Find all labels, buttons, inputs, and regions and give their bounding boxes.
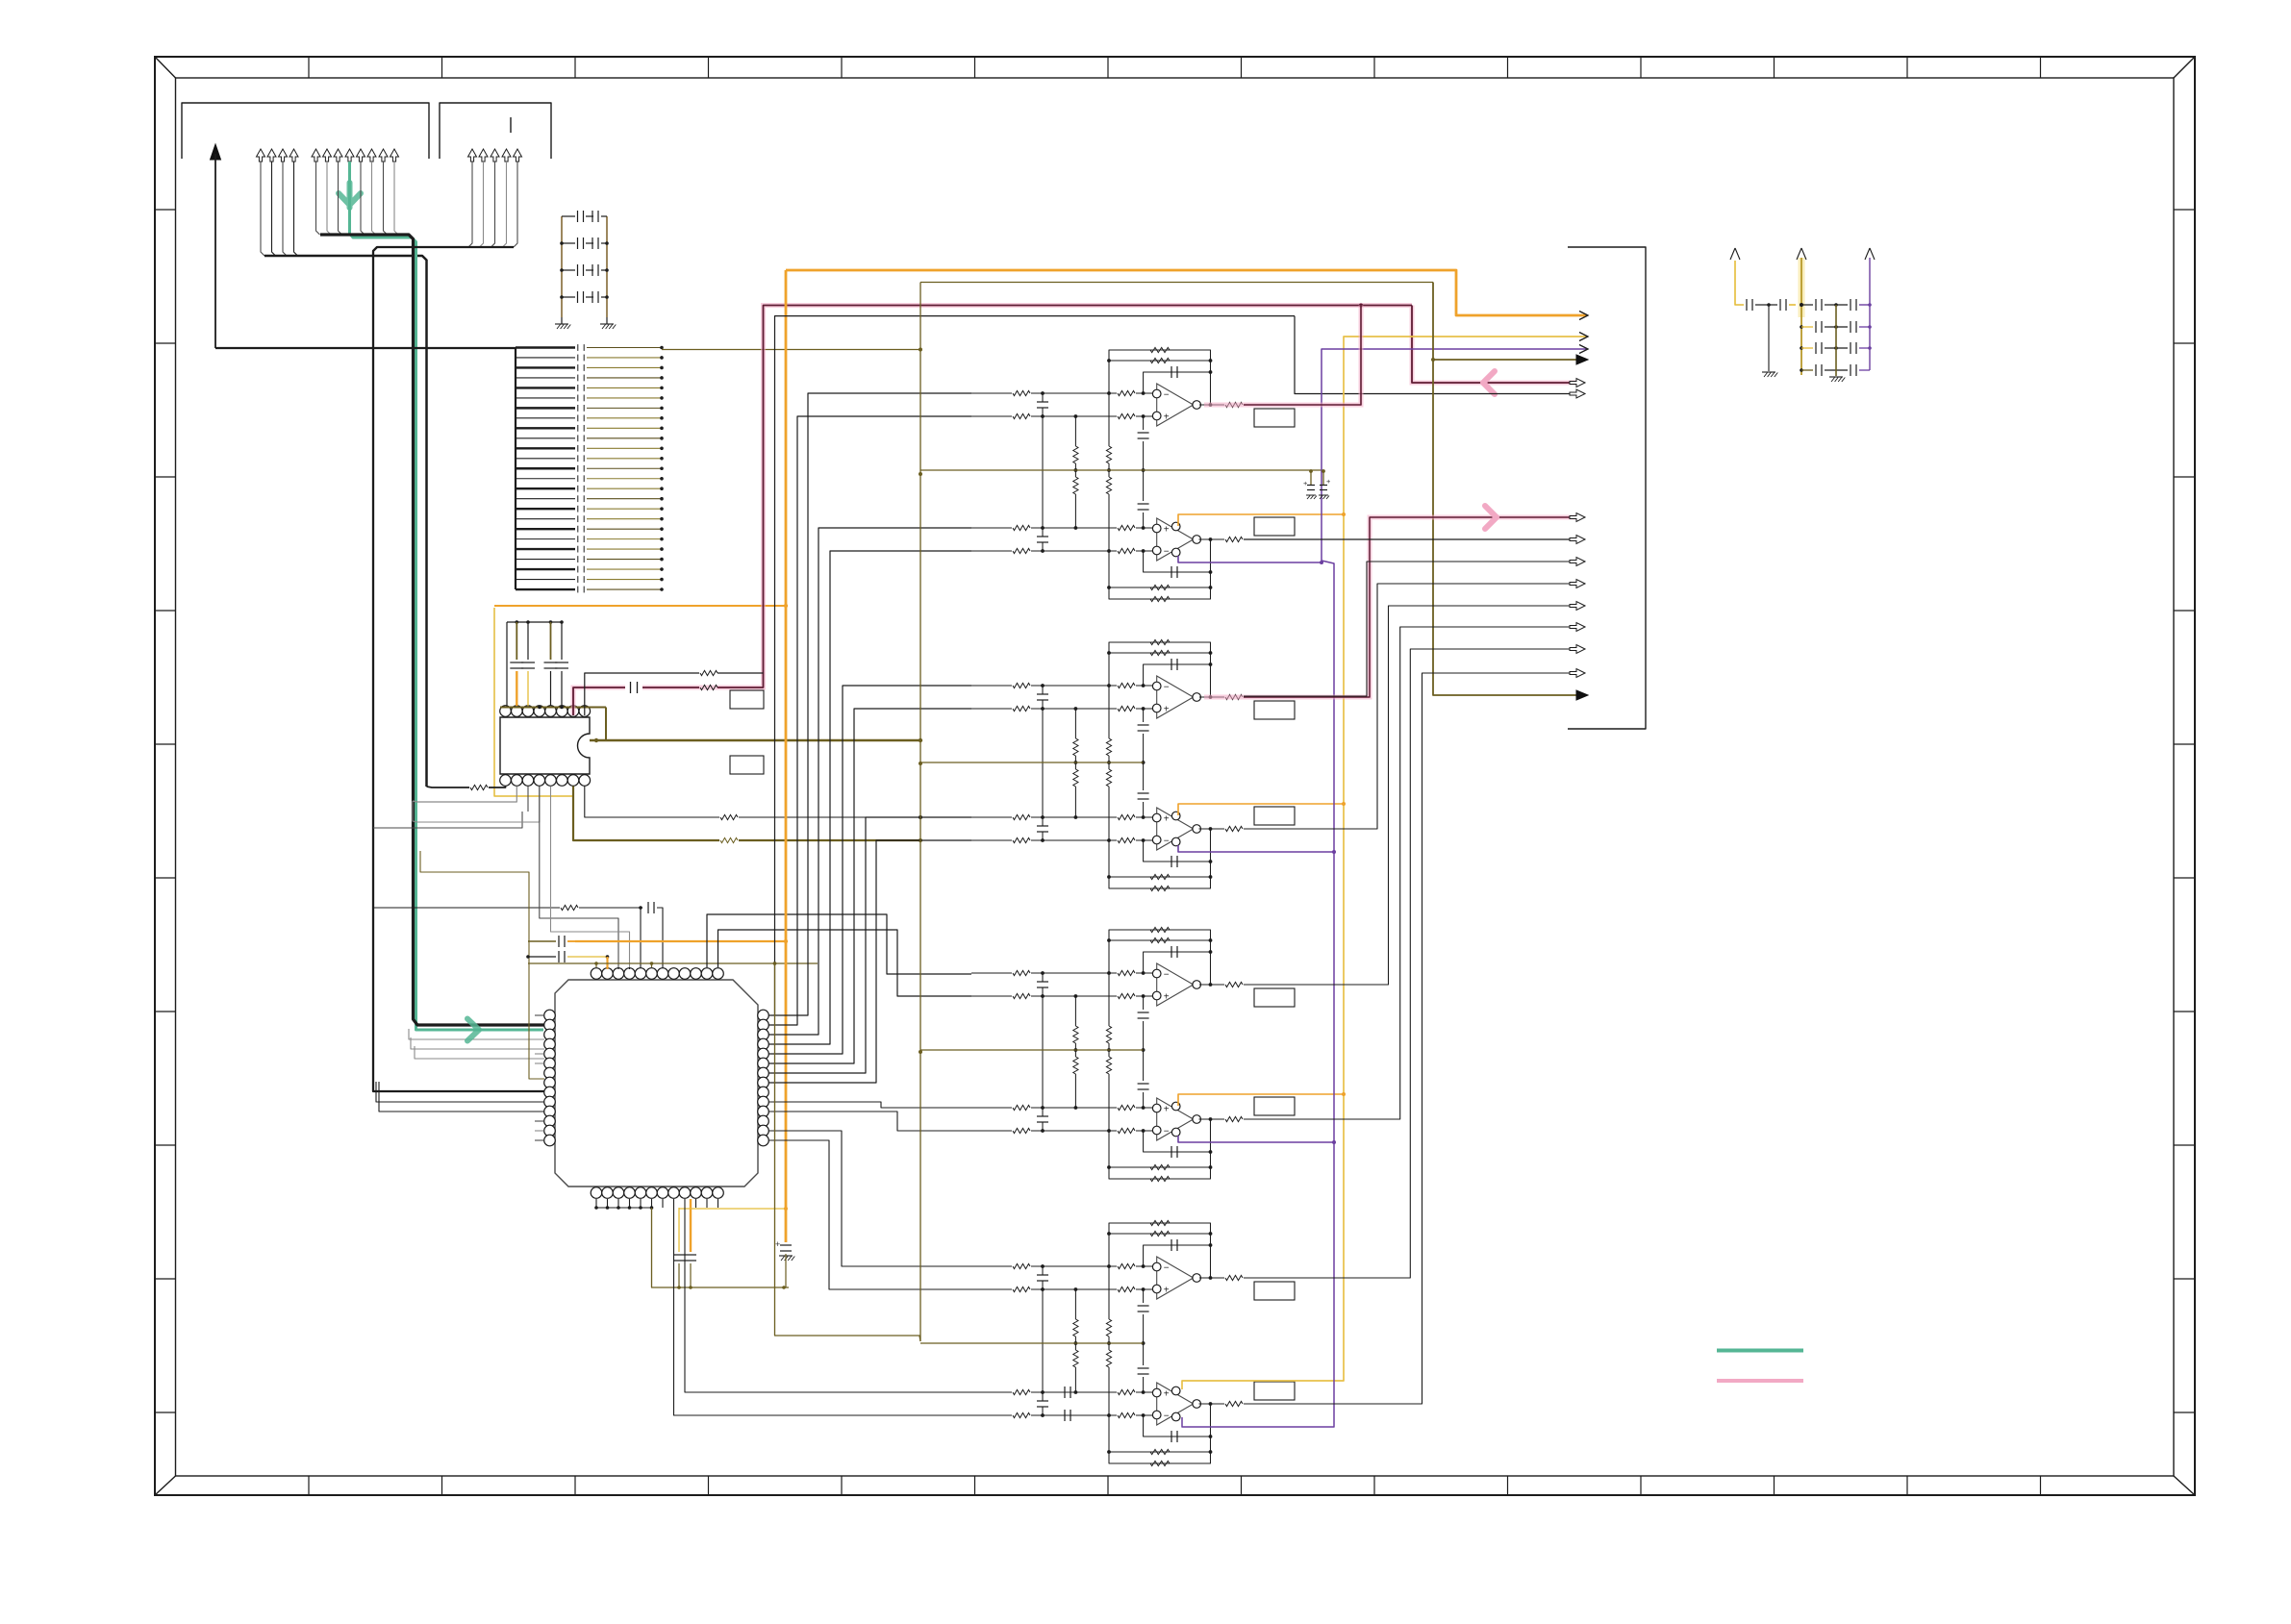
wire bundle B	[316, 162, 320, 235]
cluster1 out2	[1199, 538, 1225, 540]
resistor on maroon net	[700, 685, 718, 689]
cap array row 11	[516, 447, 575, 449]
green highlighted net arrow chevron	[339, 183, 361, 208]
top-right decoupling network	[1730, 248, 1740, 260]
cluster2 out2	[1199, 828, 1225, 830]
box out4A	[1254, 1282, 1295, 1300]
cluster3 out1	[1199, 984, 1224, 986]
U3 top pin 5	[635, 968, 646, 980]
U2 pin 15 (bottom)	[512, 775, 523, 787]
olive rail vertical x=550	[420, 851, 544, 1079]
box out4B	[1254, 1382, 1295, 1400]
U3 left pin 9	[544, 1087, 556, 1098]
cluster4 feedback rail bottom	[1109, 1404, 1211, 1463]
cluster1 in1a	[971, 392, 1012, 394]
connector pin arrow C5	[514, 149, 522, 162]
U3 right pin 9	[758, 1087, 769, 1098]
wire power to cap array	[215, 347, 516, 349]
cluster2 in2a	[971, 816, 1012, 818]
olive stem	[1835, 305, 1837, 376]
ground ladder left	[555, 323, 568, 325]
U3 left pin 11	[544, 1106, 556, 1117]
cap array left rail	[515, 348, 516, 590]
cluster3 out2	[1199, 1118, 1225, 1120]
U2 pin 1 (top)	[500, 706, 512, 717]
U3 right pin 11	[758, 1106, 769, 1117]
cap array row 10	[516, 437, 575, 439]
cluster4 out1	[1199, 1277, 1224, 1279]
U2 pin 16 (bottom)	[500, 775, 512, 787]
olive vertical x=805.5 lower	[775, 963, 921, 1341]
bundle B vertical	[320, 235, 544, 1025]
U3 bottom pin 4	[624, 1187, 636, 1199]
op-amp U2A	[1157, 676, 1194, 718]
cap array row 1	[516, 346, 575, 348]
U3 bottom pin 6	[646, 1187, 658, 1199]
U2 pin 10 (bottom)	[567, 775, 579, 787]
pink net cluster B	[1204, 517, 1577, 697]
U3 left pin 12	[544, 1115, 556, 1127]
electrolytic cap on orange bus	[780, 1244, 792, 1246]
cluster3 olive mid	[920, 1049, 1144, 1051]
orange branch cluster2	[1178, 804, 1344, 815]
svg-text:+: +	[1164, 992, 1170, 1003]
cluster1 olive mid	[920, 469, 1323, 471]
U3 bottom pin 11	[701, 1187, 713, 1199]
purple net	[1182, 349, 1587, 1427]
cluster4 input cap2	[1037, 1400, 1048, 1402]
svg-text:−: −	[1164, 1412, 1170, 1422]
branch to U2 net	[373, 812, 522, 828]
wire bundle C	[468, 162, 472, 247]
U3 top pin stubs	[607, 967, 609, 969]
cluster2 feedback rail bottom	[1109, 829, 1211, 888]
U3 right pin 12	[758, 1115, 769, 1127]
cluster3 feedback rail top	[1109, 930, 1211, 985]
cluster2 feedback rail top	[1109, 642, 1211, 697]
U3 bottom pin 9	[679, 1187, 691, 1199]
connector pin arrow C2	[479, 149, 488, 162]
long net to amp D2b	[674, 1208, 972, 1415]
cluster3 input cap1	[1037, 981, 1048, 983]
U3 top pin 8	[668, 968, 680, 980]
cluster4 in2b	[971, 1414, 1012, 1416]
connector pin arrow B7	[379, 149, 388, 162]
cluster4 divider rails	[1108, 1266, 1110, 1319]
svg-text:+: +	[1164, 1105, 1170, 1115]
U2 pin 2 (top)	[512, 706, 523, 717]
wire cap to U2 pin5	[550, 671, 552, 706]
net A2 out to connector	[1244, 538, 1577, 540]
bus net to row y=652	[1244, 627, 1577, 1119]
cap array row 23	[516, 568, 575, 570]
cluster3 fb cap wire	[1144, 952, 1211, 973]
thin yellow branch from orange bus	[679, 1208, 786, 1210]
bundle C vertical	[373, 247, 544, 1091]
cap array row 2	[516, 357, 575, 359]
orange net A (top)	[786, 270, 1587, 315]
U3 top pin 9	[679, 968, 691, 980]
U3 left pin 13	[544, 1125, 556, 1137]
net U2 pin8b	[585, 787, 719, 818]
U3 left pin 5	[544, 1048, 556, 1060]
svg-text:+: +	[1303, 479, 1308, 487]
net U3 pin9 to amp C2a	[768, 1102, 971, 1108]
black net from U2 pin8	[585, 673, 699, 715]
cluster3 input cap2	[1037, 1115, 1048, 1117]
pin mark J2	[510, 117, 512, 133]
U3 right pin 8	[758, 1077, 769, 1088]
net U3 right pin8 to amp	[768, 840, 971, 1083]
connector pin arrow B3	[334, 149, 342, 162]
U2 pin 7 (top)	[567, 706, 579, 717]
yellow wire cap to U2 pin2	[516, 671, 517, 706]
U3 right pin 1	[758, 1010, 769, 1021]
U3 top pin 11	[701, 968, 713, 980]
U3 top pin 4	[624, 968, 636, 980]
cluster2 out1	[1199, 696, 1224, 698]
resistor on net to U3	[561, 905, 578, 910]
cap array row 21	[516, 548, 575, 550]
svg-text:+: +	[1164, 412, 1170, 423]
cluster4 in1a	[971, 1265, 1012, 1267]
cap array row 22	[516, 559, 575, 561]
connector pin arrow B2	[323, 149, 332, 162]
U3 right pin 6	[758, 1058, 769, 1069]
purple power arrow	[1865, 248, 1875, 260]
connector arrow row y=584	[1570, 558, 1585, 566]
orange branch above U3	[575, 940, 786, 942]
border tick marks	[308, 57, 310, 78]
op-amp U1B	[1157, 518, 1194, 561]
U2 pin 14 (bottom)	[522, 775, 534, 787]
gray wire to U2 pin2b	[413, 787, 516, 803]
U3 left pin 14	[544, 1135, 556, 1146]
connector arrow row y=652	[1570, 623, 1585, 632]
cluster4 feedback rail top	[1109, 1223, 1211, 1278]
cluster3 in2a	[971, 1107, 1012, 1109]
connector arrow row y=607	[1570, 580, 1585, 588]
purple branch cluster1	[1178, 556, 1322, 562]
box FB2	[730, 756, 764, 774]
orange branch cluster1	[1178, 514, 1344, 526]
cap array row 19	[516, 528, 575, 530]
connector pin arrow C4	[502, 149, 511, 162]
svg-text:−: −	[1164, 970, 1170, 981]
olive rail above U2 pins	[500, 707, 606, 709]
connector pin arrow B1	[312, 149, 320, 162]
cap array row 15	[516, 487, 575, 489]
U3 left pin wires	[535, 1014, 544, 1016]
connector pin arrow B4	[345, 149, 354, 162]
olive net U2 pin7b	[573, 787, 719, 841]
op-amp U4B	[1157, 1383, 1194, 1425]
power arrow (filled)	[211, 144, 221, 160]
cluster3 in2b	[971, 1130, 1012, 1132]
U2 pin 3 (top)	[522, 706, 534, 717]
cluster1 feedback rail bottom	[1109, 539, 1211, 599]
connector pin arrow A3	[279, 149, 288, 162]
yellow caps below U3	[678, 1208, 680, 1252]
cluster4 out2	[1199, 1403, 1225, 1405]
net U3 right pin6 to amp	[768, 709, 971, 1063]
connector pin arrow C1	[468, 149, 477, 162]
maroon net into U2 pin7	[573, 306, 1577, 716]
cap array row 4	[516, 377, 575, 379]
ladder right rail	[606, 216, 608, 317]
U3 left pin 4	[544, 1038, 556, 1050]
U2 pin 13 (bottom)	[534, 775, 545, 787]
U3 right pin 10	[758, 1096, 769, 1108]
cap array row 13	[516, 467, 575, 469]
cap array row 20	[516, 538, 575, 540]
cap array row 17	[516, 508, 575, 510]
box FB1	[730, 690, 764, 709]
ladder cap row 1 lead	[562, 215, 575, 217]
U3 right pin 14	[758, 1135, 769, 1146]
U3 right pin 13	[758, 1125, 769, 1137]
U3 left pin 6	[544, 1058, 556, 1069]
cap array row 25	[516, 588, 575, 590]
IC U3 (QFP) body	[555, 980, 758, 1187]
op-amp U3B	[1157, 1098, 1194, 1140]
U3 right pin 2	[758, 1019, 769, 1031]
net U3 right pin3 to amp	[768, 528, 971, 1035]
svg-text:−: −	[1164, 683, 1170, 693]
filled arrow olive row	[1576, 355, 1588, 364]
cap array row 12	[516, 458, 575, 460]
net U3 pin14 to amp D1b	[768, 1140, 971, 1289]
bundle A vertical	[264, 256, 427, 787]
net U3 right pin1 to amp	[768, 393, 971, 1015]
olive net from cap array to opamp rail	[662, 349, 920, 351]
gnd stem left	[1768, 305, 1770, 371]
cluster3 in1a	[971, 972, 1012, 974]
U3 right pin 5	[758, 1048, 769, 1060]
cap array row 5	[516, 387, 575, 388]
orange bus vertical	[785, 270, 788, 1242]
IC U2 body	[500, 717, 590, 774]
cluster2 1084 column	[1042, 709, 1044, 817]
ladder cap row 2 lead	[562, 242, 575, 244]
connector arrow maroon net	[1570, 379, 1585, 387]
svg-text:−: −	[1164, 547, 1170, 558]
connector arrow purple	[1579, 345, 1588, 354]
olive rail above U3	[528, 962, 818, 964]
bus net to row y=700	[1244, 673, 1577, 1404]
cluster2 fb cap wire	[1144, 664, 1211, 686]
op-amp U2B	[1157, 808, 1194, 850]
U3 bottom pin 1	[591, 1187, 602, 1199]
U3 top pin 6	[646, 968, 658, 980]
U2 pin 5 (top)	[545, 706, 557, 717]
cluster3 feedback rail bottom	[1109, 1119, 1211, 1179]
U3 bottom pin 8	[668, 1187, 680, 1199]
ground decoupling 2	[1829, 376, 1843, 378]
yellow net vertical	[1182, 337, 1587, 1389]
U3 right pin 7	[758, 1067, 769, 1079]
cluster4 in1b	[971, 1288, 1012, 1290]
box out2A	[1254, 701, 1295, 719]
cap rail above U2	[507, 621, 562, 623]
cluster4 1084 column	[1042, 1289, 1044, 1392]
connector arrow pink	[1570, 513, 1585, 522]
net U3 right pin4 to amp	[768, 551, 971, 1044]
orange branch cluster3	[1178, 1094, 1344, 1106]
bus net to row y=675	[1244, 649, 1577, 1278]
connector arrow yellow	[1579, 333, 1588, 341]
purple branch cluster2	[1178, 845, 1334, 852]
connector arrow row y=675	[1570, 645, 1585, 654]
connector pin arrow A1	[257, 149, 265, 162]
gray wire to U3 pin	[411, 1037, 544, 1049]
U3 top pin 2	[602, 968, 614, 980]
svg-text:+: +	[1164, 814, 1170, 825]
net U3 pin12 to amp C	[718, 930, 972, 996]
gray wire to U3 pin	[415, 1046, 544, 1059]
net U3 pin11 to amp C	[707, 914, 971, 974]
cluster2 in1a	[971, 685, 1012, 687]
olive net arrows	[1433, 283, 1579, 696]
cluster2 divider rails	[1108, 686, 1110, 738]
cluster1 feedback rail top	[1109, 350, 1211, 405]
cap array row 9	[516, 427, 575, 429]
U3 top pin 7	[657, 968, 668, 980]
ladder cap row 3 lead	[562, 269, 575, 271]
net U3 pin13 to amp D1a	[768, 1131, 971, 1266]
cluster2 input cap1	[1037, 693, 1048, 695]
svg-text:+: +	[1164, 1389, 1170, 1400]
U3 left pin 1	[544, 1010, 556, 1021]
svg-text:+: +	[1164, 1286, 1170, 1296]
svg-text:−: −	[1164, 837, 1170, 847]
ground decoupling 1	[1762, 371, 1775, 373]
connector arrow row y=700	[1570, 669, 1585, 678]
cluster4 in2a	[971, 1391, 1012, 1393]
ladder left rail	[561, 216, 563, 317]
connector pin arrow B8	[390, 149, 399, 162]
U3 bottom pin stubs and nets	[595, 1199, 597, 1208]
bus net to row y=607	[1244, 584, 1577, 829]
gray wire to U2 pin4b	[413, 787, 540, 823]
cluster4 fb cap wire	[1144, 1245, 1211, 1266]
op-amp U1A	[1157, 384, 1194, 426]
U3 bottom pin 5	[635, 1187, 646, 1199]
cap array row 8	[516, 417, 575, 419]
cluster2 in1b	[971, 708, 1012, 710]
cluster1 in2b	[971, 550, 1012, 552]
cap array row 24	[516, 579, 575, 581]
cluster2 input cap2	[1037, 825, 1048, 827]
maroon out cluster A op1	[1204, 306, 1361, 406]
cap array row 7	[516, 407, 575, 409]
rows 2-4	[1800, 325, 1803, 329]
U2 pin1 riser	[506, 622, 508, 706]
cluster1 fb cap wire	[1144, 372, 1211, 393]
bus net to row y=630	[1244, 606, 1577, 985]
electrolytic caps on colored verticals	[1310, 471, 1312, 485]
wire to U3 left pin 11	[379, 1082, 544, 1112]
connector arrow orange	[1579, 312, 1588, 320]
box out1B	[1254, 517, 1295, 536]
connector arrow row8	[1570, 536, 1585, 544]
U2 pin 4 (top)	[534, 706, 545, 717]
bus net to row y=584	[1244, 562, 1577, 696]
cap array row 3	[516, 366, 575, 368]
connector arrow row6	[1570, 389, 1585, 398]
wire to U3 left pin 10	[376, 1082, 544, 1102]
cluster1 divider rails	[1108, 393, 1110, 446]
svg-text:−: −	[1164, 1263, 1170, 1274]
cluster1 in1b	[971, 415, 1012, 417]
U2 pin 8 (top)	[579, 706, 591, 717]
U3 top pin 3	[613, 968, 624, 980]
U3 left pin 3	[544, 1029, 556, 1040]
box out3A	[1254, 988, 1295, 1007]
cluster1 input cap1	[1037, 401, 1048, 403]
wire cap to U2 pin6	[561, 671, 563, 706]
U3 bottom pin 10	[691, 1187, 702, 1199]
long net to amp D2a	[685, 1208, 971, 1392]
connector pin arrow C3	[491, 149, 499, 162]
page border frame	[155, 57, 2195, 1495]
branch resistor net to U3	[373, 907, 560, 909]
yellow net loop around U2	[494, 608, 574, 796]
connector pin arrow A2	[267, 149, 276, 162]
connector J1 outline bracket	[182, 103, 429, 159]
U3 right pin 4	[758, 1038, 769, 1050]
cap array row 16	[516, 498, 575, 500]
U3 left pin 2	[544, 1019, 556, 1031]
box out3B	[1254, 1097, 1295, 1115]
op-amp U4A	[1157, 1257, 1194, 1299]
cluster3 divider rails	[1108, 973, 1110, 1026]
purple branch cluster3	[1178, 1136, 1334, 1142]
U3 top pin 10	[691, 968, 702, 980]
svg-text:+: +	[775, 1239, 780, 1249]
black bus line row 410	[775, 316, 1296, 1015]
cap lead x=572.5	[550, 622, 552, 660]
cap array row 18	[516, 518, 575, 520]
connector pin arrow B6	[367, 149, 376, 162]
cap lead x=537.3	[516, 622, 517, 660]
U2 pin 6 (top)	[557, 706, 568, 717]
box out2B	[1254, 807, 1295, 825]
U3 top pin 12	[713, 968, 724, 980]
cluster2 olive mid	[920, 762, 1144, 763]
svg-text:+: +	[1164, 525, 1170, 536]
wire bundle A	[261, 162, 264, 256]
svg-text:+: +	[1326, 477, 1331, 486]
cluster3 1084 column	[1042, 996, 1044, 1108]
cap array row 14	[516, 478, 575, 480]
U2 pin 9 (bottom)	[579, 775, 591, 787]
cluster1 in2a	[971, 527, 1012, 529]
svg-text:−: −	[1164, 390, 1170, 401]
net U3 right pin2 to amp	[768, 416, 971, 1025]
yellow power vertical with glow	[1799, 258, 1805, 317]
svg-text:+: +	[1164, 705, 1170, 715]
caps above U3	[528, 940, 556, 942]
connector arrow row y=630	[1570, 602, 1585, 611]
U2 output olive thick	[590, 739, 920, 742]
cluster4 olive mid	[920, 1342, 1144, 1344]
legend pink line	[1717, 1379, 1803, 1383]
ground ladder right	[600, 323, 614, 325]
yellow to power arrow 1	[1735, 261, 1744, 305]
ladder cap row 4 lead	[562, 296, 575, 298]
U3 bottom pin 3	[613, 1187, 624, 1199]
